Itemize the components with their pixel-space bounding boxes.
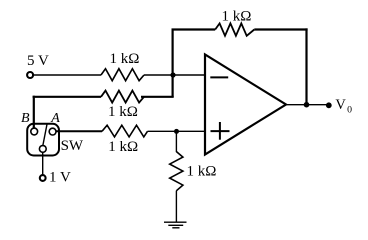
junction node B (non-inverting input node) [174,129,179,134]
resistor R (5V row) 1 kOhm zigzag [101,69,144,81]
op-amp U1 triangle [205,55,286,155]
wire: row2 vertical up to node A [172,75,174,97]
svg-text:1 kΩ: 1 kΩ [108,139,138,155]
svg-text:A: A [50,111,60,126]
wire: row2 horizontal left lead from switch B [33,96,101,98]
wire: node B down to grounding resistor [175,131,177,152]
wire: R1 to op-amp inverting input [144,74,205,76]
ground symbol [164,222,187,228]
junction node A (inverting input node) [170,72,175,77]
svg-text:5 V: 5 V [27,53,49,69]
wire: feedback left vertical from node A up [172,30,174,76]
wire: switch pole down to 1V terminal [42,152,44,175]
resistor R (switch row) 1 kOhm zigzag [101,91,144,103]
svg-text:1 kΩ: 1 kΩ [108,104,138,120]
svg-text:1 kΩ: 1 kΩ [222,8,252,24]
svg-text:1 kΩ: 1 kΩ [187,163,217,179]
wire: grounding resistor to ground [175,191,177,222]
switch contact B [31,128,38,135]
wire: row2 resistor right lead [141,96,174,98]
wire: op-amp output to Vo terminal [285,104,329,106]
terminal 5 V input [27,72,33,78]
op-amp non-inverting input plus symbol [211,122,230,140]
switch lever arm [43,123,48,146]
resistor R (to ground) 1 kOhm vertical zigzag [170,152,183,191]
resistor feedback 1 kOhm zigzag [215,23,254,35]
wire: vertical down into switch terminal B [33,96,35,129]
switch SW body box [27,124,59,156]
svg-text:1 kΩ: 1 kΩ [110,51,140,67]
wire: row3 resistor to op-amp non-inverting input [148,130,206,132]
wire: feedback top horizontal left segment [172,28,216,30]
junction output node (feedback tap) [304,102,310,108]
wire: 5V terminal to R1 [33,74,101,76]
svg-text:SW: SW [61,138,84,154]
op-amp inverting input minus symbol [210,76,228,78]
wire: feedback right vertical down to output node [305,28,307,105]
wire: feedback top horizontal right segment [254,28,307,30]
terminal Vo output dot [326,102,332,108]
svg-text:B: B [21,111,30,126]
wire: switch A to row3 resistor [56,130,102,132]
svg-text:1 V: 1 V [49,170,71,186]
terminal 1 V input [40,175,46,181]
switch contact A [49,128,56,135]
resistor R (non-inverting row) 1 kOhm zigzag [102,125,148,137]
switch pole contact [39,146,46,153]
